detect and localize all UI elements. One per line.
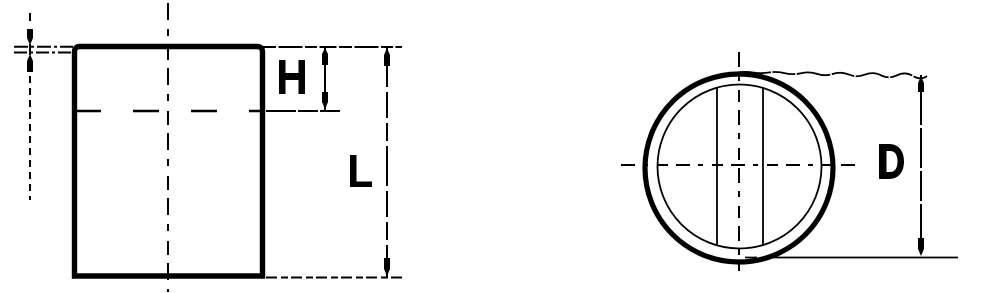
H bottom arrow [322,92,328,109]
wall thickness arrow up [27,54,33,72]
dimension line H [324,47,326,110]
L bottom arrow [384,258,390,276]
keyway slot right line [762,87,764,246]
horizontal centerline (end view) [621,164,858,166]
H top arrow [322,48,328,65]
cylinder side view outline [75,47,263,277]
bottom extension line (rect bottom, to right) [266,277,402,279]
vertical centerline (side view) [167,3,169,292]
label H [279,60,305,94]
L top arrow [384,48,390,66]
vertical centerline (end view) [738,52,740,271]
wall thickness dimension line [29,13,31,21]
wall thickness dimension line connector [29,44,31,55]
dimension line L [386,47,388,277]
D bottom arrow [918,238,924,256]
wall thickness arrow down [27,29,33,45]
wall thickness extension line lower [14,52,72,54]
top extension line (rect top, to right) [263,46,402,48]
hidden hole-bottom dashed line [75,110,264,112]
end view inner circle [658,85,822,249]
keyway slot left line [716,87,718,246]
dimension line D [920,75,922,257]
wall thickness extension line upper [14,46,73,48]
D top extension line [737,72,927,78]
end view outer circle [645,74,833,262]
label D [879,144,904,179]
H bottom extension line [266,110,340,112]
label L [350,155,372,187]
D top arrow [918,76,924,92]
D bottom extension line [745,257,958,259]
